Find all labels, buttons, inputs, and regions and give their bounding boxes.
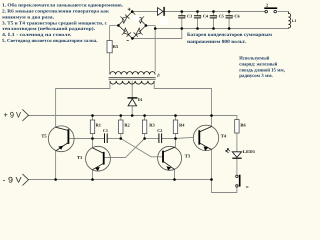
svg-text:5. Светодиод является индикато: 5. Светодиод является индикатором залпа. <box>2 38 98 44</box>
svg-text:+ 9 V: + 9 V <box>4 110 22 119</box>
svg-text:2: 2 <box>266 2 268 7</box>
svg-text:LED1: LED1 <box>243 149 255 154</box>
svg-text:Tr: Tr <box>157 73 161 77</box>
svg-text:R5: R5 <box>113 44 119 49</box>
svg-text:минимум в два раза.: минимум в два раза. <box>2 15 54 20</box>
svg-text:R2: R2 <box>124 123 129 128</box>
svg-text:радиусом 3 мм.: радиусом 3 мм. <box>239 73 272 79</box>
svg-text:Т1: Т1 <box>77 155 83 160</box>
svg-text:гвоздь длиной 15 мм,: гвоздь длиной 15 мм, <box>239 67 285 73</box>
svg-text:1. Оба переключателя замыкаютс: 1. Оба переключателя замыкаются одноврем… <box>2 2 123 8</box>
svg-text:2. R6 меньше сопротивления ген: 2. R6 меньше сопротивления генератора ка… <box>2 8 109 14</box>
svg-text:R1: R1 <box>96 123 101 128</box>
svg-text:D1: D1 <box>138 97 143 102</box>
svg-text:Т4: Т4 <box>221 134 227 139</box>
svg-text:+ C6: + C6 <box>231 13 240 18</box>
svg-text:3. Т5 и Т4 транзисторы средней: 3. Т5 и Т4 транзисторы средней мощности,… <box>2 20 107 26</box>
svg-text:напряжением 800 вольт.: напряжением 800 вольт. <box>187 39 246 45</box>
svg-text:R3: R3 <box>149 123 155 128</box>
svg-text:- 9 V: - 9 V <box>3 175 23 184</box>
svg-text:L1: L1 <box>292 19 297 23</box>
svg-text:+ C5: + C5 <box>215 13 224 18</box>
svg-text:Т5: Т5 <box>41 133 47 138</box>
svg-text:Батарея конденсаторов суммарны: Батарея конденсаторов суммарным <box>187 32 273 38</box>
svg-text:R6: R6 <box>240 123 246 128</box>
svg-text:теплоотводом (небольшой радиат: теплоотводом (небольшой радиатор). <box>2 26 95 32</box>
svg-text:Используемый: Используемый <box>239 56 269 62</box>
svg-text:Т3: Т3 <box>185 154 191 159</box>
svg-text:+ C3: + C3 <box>184 13 193 18</box>
svg-text:R4: R4 <box>179 123 185 128</box>
svg-text:+ C4: + C4 <box>199 13 208 18</box>
svg-text:C1: C1 <box>103 128 108 133</box>
svg-text:4. L1 - соленоид на стволе.: 4. L1 - соленоид на стволе. <box>2 32 72 38</box>
svg-text:снаряд: железный: снаряд: железный <box>239 61 277 67</box>
svg-text:C2: C2 <box>157 128 162 133</box>
